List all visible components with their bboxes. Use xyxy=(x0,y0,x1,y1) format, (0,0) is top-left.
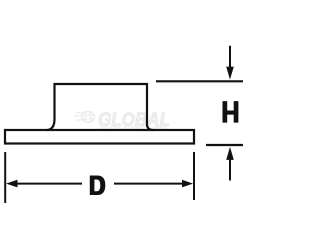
wire: D right extension line xyxy=(193,152,195,200)
wire: H lower dimension line xyxy=(206,144,243,146)
wire: D left extension line xyxy=(4,152,6,203)
label D xyxy=(90,176,106,196)
arrow down (H top) xyxy=(229,46,231,69)
watermark globe icon xyxy=(74,112,95,123)
arrow right (D) xyxy=(114,183,184,185)
boss (raised hub with fillets) xyxy=(47,84,153,130)
arrow up (H bottom) xyxy=(226,147,234,160)
label H xyxy=(223,101,239,123)
wire: H upper dimension line xyxy=(156,80,243,82)
base plate xyxy=(5,130,194,144)
arrow left (D) xyxy=(6,180,18,188)
